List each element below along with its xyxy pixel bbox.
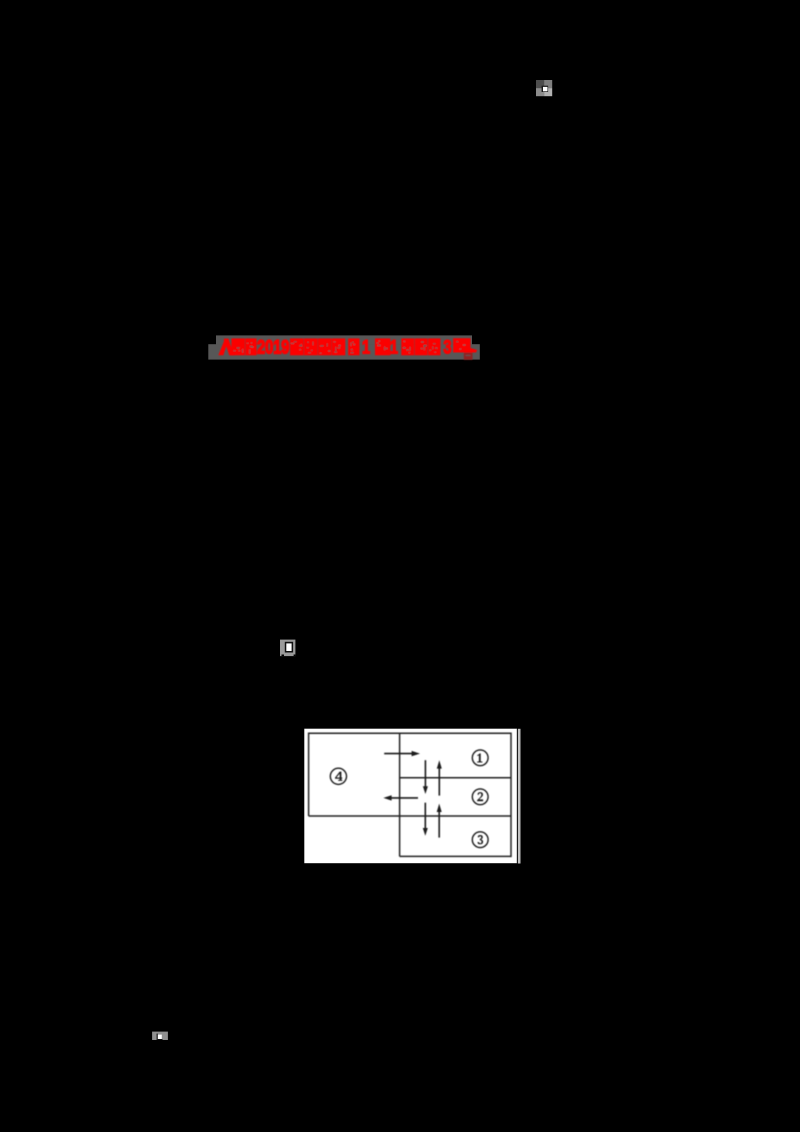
circle 2 [472,789,488,805]
digit(s) 3 [443,337,451,358]
bottom of box 3 [400,855,511,857]
cjk blob 0 [231,338,245,355]
red title text (CJK glyph approximations + digits) [218,337,477,360]
tofu placeholder icon (mid page) [280,640,295,657]
cjk blob 7 [375,338,390,355]
down arrow 1 [424,760,426,787]
arrows [383,751,441,838]
svg-text:2019: 2019 [257,337,289,358]
circle 4 [330,768,346,784]
svg-text:3: 3 [443,337,451,358]
cjk blob 6 [348,338,359,355]
circle 3 [472,832,488,848]
up arrow 2 [438,811,440,837]
broken-image placeholder icon (top right) [536,80,552,96]
bottom of box4 + divider 2/3 [309,815,511,817]
left line (box 4) [308,733,310,817]
divider 1/2 [400,777,511,779]
digit(s) 1 [362,337,370,358]
up arrow 1 [438,768,440,796]
red title: gray highlight band [208,335,480,359]
diagram frame lines [309,733,511,858]
digit(s) 2019 [257,337,289,358]
cjk blob 8 [401,338,414,355]
digit(s) 1 [390,337,398,358]
top line [309,732,511,734]
cjk blob 5 [332,338,346,355]
char juan [453,338,470,352]
svg-text:1: 1 [390,337,398,358]
down arrow 2 [424,803,426,829]
diagram: white scanned image background [304,729,520,864]
bottom-left tiny placeholder mark [152,1032,168,1040]
left-pointing horizontal arrow [391,797,418,799]
central vertical divider [399,733,401,856]
circled numbers [330,750,488,848]
char ren [218,339,234,356]
cjk blob 3 [304,338,318,355]
right line [510,733,512,858]
subscript char (dark red) [464,353,473,360]
cjk blob 10 [428,338,441,355]
cjk blob 1 [245,338,256,355]
cjk blob 2 [290,338,304,355]
circle 1 [472,750,488,766]
right-pointing horizontal arrow [384,753,412,755]
cjk blob 4 [318,338,332,355]
cjk blob 9 [415,338,428,355]
svg-text:1: 1 [362,337,370,358]
